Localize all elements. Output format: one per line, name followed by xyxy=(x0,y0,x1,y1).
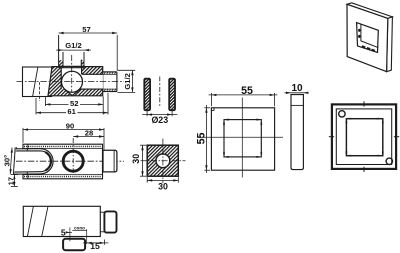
plate centerline vertical xyxy=(241,98,243,178)
dimension 17 xyxy=(7,175,18,187)
bore bottom line xyxy=(80,88,103,90)
svg-text:G1/2: G1/2 xyxy=(123,73,132,89)
svg-text:55: 55 xyxy=(241,85,253,97)
dimension 52 xyxy=(45,97,103,115)
swivel ball xyxy=(62,71,83,92)
screw hole bottom-right xyxy=(386,158,392,164)
svg-text:28: 28 xyxy=(85,128,93,137)
knurl band bottom xyxy=(24,176,102,178)
pipe thread root top xyxy=(103,73,117,75)
center tick left xyxy=(329,136,334,138)
dimension 5 xyxy=(61,227,72,241)
main centerline (dashed) xyxy=(17,81,125,83)
svg-text:5: 5 xyxy=(61,227,66,237)
horizontal bore xyxy=(75,74,103,89)
block centerline horizontal xyxy=(141,160,186,162)
view: plate side 10 xyxy=(285,83,309,169)
3D hole xyxy=(357,23,379,53)
clip joint bottom xyxy=(27,174,29,179)
3D hole inner left edge xyxy=(361,24,379,48)
view 3: holder side view xyxy=(23,206,116,251)
dimension 30deg xyxy=(2,148,13,175)
port seat line 1 xyxy=(59,65,84,67)
port wall inner left / G1/2 ext xyxy=(62,52,64,68)
clip crest thick arc xyxy=(45,152,51,170)
svg-text:G1/2: G1/2 xyxy=(65,41,81,50)
knurl band bottom line xyxy=(23,174,103,176)
dimension 28 xyxy=(73,128,104,137)
chamber wall right xyxy=(81,68,83,75)
view: wall block section 30x30 xyxy=(131,139,186,192)
holder centerline vertical xyxy=(72,138,74,173)
plate centerline horizontal xyxy=(201,136,283,138)
3D screw dot 2 xyxy=(358,35,360,38)
plate side strip xyxy=(291,95,303,170)
clip joint top xyxy=(27,144,29,148)
neck top xyxy=(100,211,104,213)
tube wall right (hatched) xyxy=(169,79,175,111)
cone cavity xyxy=(65,89,81,96)
dimension G1/2 right xyxy=(118,70,136,92)
dimension O23 xyxy=(142,111,177,126)
end cap edge line xyxy=(113,150,115,172)
neck bottom xyxy=(100,231,104,233)
elbow body (hatched) xyxy=(48,67,103,96)
svg-text:61: 61 xyxy=(67,107,76,116)
clip back plate line 2 xyxy=(15,147,17,174)
dimension 61 xyxy=(36,93,108,116)
clip spring notch top xyxy=(26,149,29,151)
cone seat lines xyxy=(65,89,81,96)
center tick right xyxy=(394,136,399,138)
plate outer square xyxy=(211,108,274,170)
dimension 30 left xyxy=(131,145,146,176)
clip inner contour xyxy=(14,151,51,172)
pipe thread root bottom xyxy=(103,88,117,90)
dimension 57 xyxy=(59,25,118,71)
knurl band top line xyxy=(23,147,103,149)
3D right face xyxy=(387,17,393,72)
pipe outer bottom xyxy=(103,91,117,93)
knurl band top xyxy=(24,146,102,148)
view 1: wall elbow cross-section xyxy=(17,35,125,101)
center tick bottom xyxy=(363,167,365,172)
port wall outer left / 57 ext xyxy=(58,35,60,68)
block centerline vertical xyxy=(162,139,164,184)
screw hole top-left xyxy=(339,111,345,117)
holder centerline horizontal xyxy=(16,160,124,162)
port wall outer right / G1/2 ext xyxy=(83,52,85,68)
port bore opening xyxy=(63,60,81,68)
view: escutcheon 3D xyxy=(347,3,392,72)
port centerline (dashed) xyxy=(71,55,73,92)
hidden centerline (dashed vertical in block) xyxy=(39,82,41,101)
svg-text:90: 90 xyxy=(66,122,74,131)
3D front face xyxy=(347,4,388,71)
3D top face xyxy=(347,3,392,19)
pipe outer top xyxy=(103,71,117,73)
dimension 10 xyxy=(285,83,309,94)
port wall inner right xyxy=(80,60,82,68)
svg-text:55: 55 xyxy=(196,133,208,145)
wall block diagonal xyxy=(33,67,38,97)
svg-text:30: 30 xyxy=(131,154,141,164)
clip spring notch bottom xyxy=(26,172,29,174)
body diagonal 2 xyxy=(42,206,48,236)
3D bottom marks xyxy=(362,46,375,51)
dimension 90 xyxy=(23,122,104,150)
pipe end xyxy=(116,72,118,92)
chamber wall left xyxy=(60,68,62,89)
plate side face line xyxy=(291,104,303,106)
dimension 55 left xyxy=(196,105,210,173)
3D screw dot 1 xyxy=(358,29,360,32)
view: tube section O23 xyxy=(142,77,177,126)
body diagonal 1 xyxy=(27,206,33,236)
escutcheon inner border xyxy=(336,109,391,165)
holder body xyxy=(23,144,103,179)
svg-text:17: 17 xyxy=(7,177,16,185)
svg-text:cono: cono xyxy=(74,226,85,231)
svg-text:Ø23: Ø23 xyxy=(151,115,168,125)
hole clip ticks xyxy=(346,119,382,156)
dimension 55 top xyxy=(209,85,278,106)
svg-text:10: 10 xyxy=(291,83,303,94)
plate corner notch xyxy=(211,108,214,111)
clip back plate line 1 xyxy=(13,147,15,174)
dimension G1/2 top xyxy=(56,41,91,51)
dimension 15 xyxy=(83,240,109,252)
thread ticks bottom xyxy=(104,89,116,91)
clip tick marks xyxy=(224,120,261,157)
block (hatched) xyxy=(147,145,178,176)
view 2: holder top view xyxy=(2,122,124,187)
plate inner square xyxy=(224,120,261,157)
clip outer contour xyxy=(14,149,53,175)
svg-text:15: 15 xyxy=(90,241,100,251)
svg-text:57: 57 xyxy=(82,25,90,34)
cone label xyxy=(72,226,86,244)
holder screw ring xyxy=(63,151,83,171)
view: escutcheon plate front 55x55 xyxy=(196,85,283,177)
center tick top xyxy=(363,101,365,106)
port seat line 2 xyxy=(59,67,84,69)
bore top line xyxy=(82,73,103,75)
end cap xyxy=(103,150,117,172)
thread ticks top xyxy=(104,72,116,74)
dimension 30 bottom xyxy=(147,177,178,191)
holder body side xyxy=(23,206,100,236)
clip bottom view xyxy=(63,239,85,251)
block hole xyxy=(156,154,170,168)
tube centerline xyxy=(159,77,161,107)
chamber cavity xyxy=(61,68,81,89)
tube wall left (hatched) xyxy=(144,79,150,111)
escutcheon hole square xyxy=(346,119,382,156)
end cap side xyxy=(104,211,116,232)
escutcheon outer square xyxy=(332,104,396,168)
port thread boss left (hatched) xyxy=(59,60,63,66)
wall block xyxy=(23,67,52,97)
svg-text:30: 30 xyxy=(158,182,168,192)
port thread boss right (hatched) xyxy=(81,60,84,66)
svg-text:30°: 30° xyxy=(2,155,11,166)
view: escutcheon front face xyxy=(329,101,399,172)
